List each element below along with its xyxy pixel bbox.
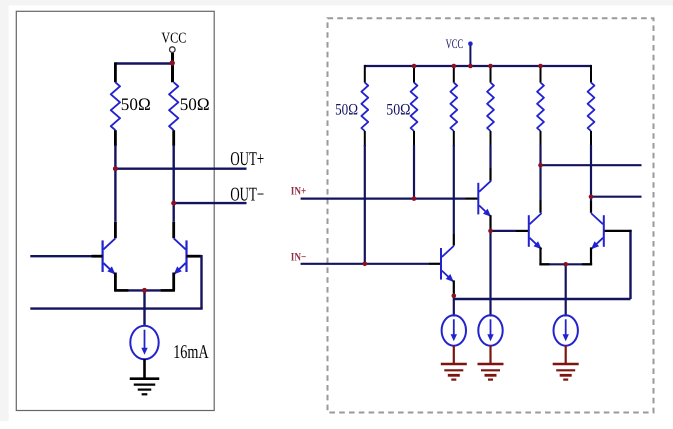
svg-text:50Ω: 50Ω [335,102,358,119]
svg-text:IN+: IN+ [291,186,307,198]
svg-text:OUT+: OUT+ [230,149,264,170]
svg-text:IN−: IN− [291,252,307,264]
svg-text:50Ω: 50Ω [386,102,410,119]
svg-text:VCC: VCC [161,30,186,46]
svg-text:50Ω: 50Ω [121,94,151,114]
svg-text:16mA: 16mA [173,342,209,363]
svg-text:VCC: VCC [446,36,464,51]
svg-text:OUT−: OUT− [230,184,264,205]
svg-text:50Ω: 50Ω [180,94,210,114]
